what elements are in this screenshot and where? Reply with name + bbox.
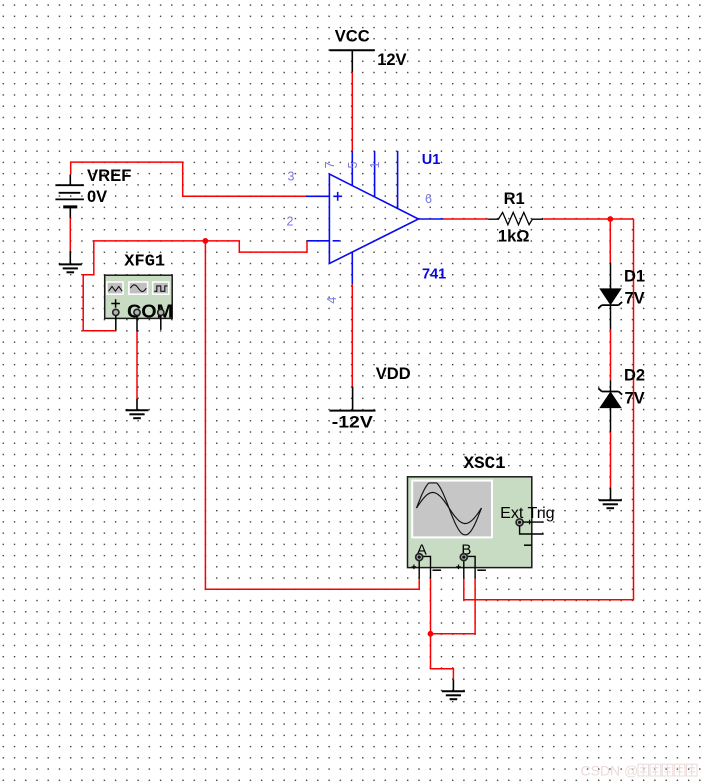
op-amp U1 pin 5 stub: [374, 151, 376, 197]
wire node C to ground: [431, 634, 454, 680]
svg-text:XSC1: XSC1: [464, 454, 506, 474]
XFG1 pin com: [136, 315, 138, 331]
svg-text:CSDN @: CSDN @: [581, 762, 639, 778]
svg-text:741: 741: [422, 267, 446, 283]
junction node C: [428, 631, 434, 637]
wire D2 to ground: [610, 432, 612, 488]
op-amp U1 input minus mark: [333, 240, 340, 242]
op-amp U1 triangle: [329, 174, 418, 264]
svg-text:VCC: VCC: [335, 27, 370, 45]
wire node B to D1: [609, 219, 611, 263]
XFG1 button triangle wave: [107, 282, 123, 294]
wire XFG1 plus to U1 pin 2: [83, 241, 307, 331]
XFG1 terminal com: [134, 309, 140, 315]
svg-text:2: 2: [287, 215, 294, 229]
op-amp U1 pin 7 stub: [351, 151, 353, 186]
wire VREF minus to ground: [69, 218, 71, 251]
svg-text:4: 4: [325, 297, 339, 304]
ground below scope: [452, 680, 454, 692]
XFG1 terminal minus: [158, 309, 164, 315]
battery VREF: [55, 175, 84, 219]
svg-text:1kΩ: 1kΩ: [498, 227, 530, 245]
wire scope B minus down: [431, 579, 476, 634]
XFG1 plus terminal mark: [111, 299, 120, 308]
svg-text:U1: U1: [422, 152, 441, 168]
instrument XFG1 body: [105, 275, 173, 318]
junction node B: [607, 216, 613, 222]
XSC1 ext trig terminal: [516, 519, 544, 545]
wire node B down right rail to scope B: [464, 219, 634, 600]
power VCC symbol: [330, 50, 375, 72]
svg-text:XFG1: XFG1: [124, 252, 165, 271]
wire R1 to node B: [544, 218, 634, 220]
op-amp U1 pin 3 stub: [306, 195, 329, 197]
svg-text:3: 3: [288, 169, 295, 183]
svg-text:1: 1: [368, 162, 382, 169]
svg-text:VDD: VDD: [376, 365, 411, 383]
wire scope A minus down: [430, 579, 432, 634]
op-amp U1 pin 6 output stub: [418, 218, 443, 220]
svg-text:D1: D1: [624, 267, 645, 285]
svg-text:D2: D2: [624, 366, 645, 384]
ground below XFG1: [136, 399, 138, 411]
XSC1 channel A terminal: [412, 554, 442, 579]
svg-text:R1: R1: [504, 190, 525, 208]
wire XFG1 com to ground: [136, 332, 138, 399]
op-amp U1 pin 2 stub: [307, 240, 329, 242]
svg-text:7V: 7V: [625, 389, 645, 407]
XFG1 button square wave: [153, 282, 169, 294]
wire U1 pin 4 to VDD: [351, 284, 353, 386]
svg-text:7: 7: [323, 162, 337, 169]
XSC1 channel B terminal: [456, 554, 486, 579]
XSC1 screen: [412, 481, 492, 538]
instrument XSC1 body: [408, 477, 532, 568]
resistor R1: [488, 212, 543, 224]
wire VCC to U1 pin 7: [351, 72, 353, 151]
svg-text:5: 5: [346, 162, 360, 169]
XFG1 button sine wave: [129, 282, 148, 294]
XSC1 waveform trace 1: [417, 483, 482, 535]
wire D1 to D2: [610, 330, 612, 380]
XSC1 waveform trace 2: [417, 493, 482, 524]
zener diode D2: [598, 380, 622, 432]
svg-text:-12V: -12V: [332, 413, 373, 431]
svg-text:12V: 12V: [377, 51, 406, 69]
svg-text:Ext Trig: Ext Trig: [500, 505, 554, 522]
zener diode D1: [598, 263, 622, 330]
op-amp U1 input plus mark: [333, 192, 342, 201]
svg-text:VREF: VREF: [87, 167, 132, 185]
svg-text:6: 6: [425, 192, 432, 206]
wire node A to scope channel A: [205, 241, 419, 589]
power VDD symbol: [330, 387, 376, 411]
ground below D2: [610, 488, 612, 501]
junction node A: [203, 238, 209, 244]
op-amp U1 pin 1 stub: [397, 151, 399, 209]
wire VREF plus to U1 pin 3: [71, 162, 306, 196]
XFG1 pin plus: [115, 315, 117, 330]
op-amp U1 pin 4 stub: [351, 252, 353, 284]
wire U1 output to R1: [444, 218, 489, 220]
XFG1 terminal plus: [113, 309, 119, 315]
XFG1 pin minus stub: [160, 315, 162, 330]
svg-text:7V: 7V: [625, 290, 645, 308]
svg-text:0V: 0V: [87, 188, 107, 206]
ground below VREF: [69, 251, 71, 265]
